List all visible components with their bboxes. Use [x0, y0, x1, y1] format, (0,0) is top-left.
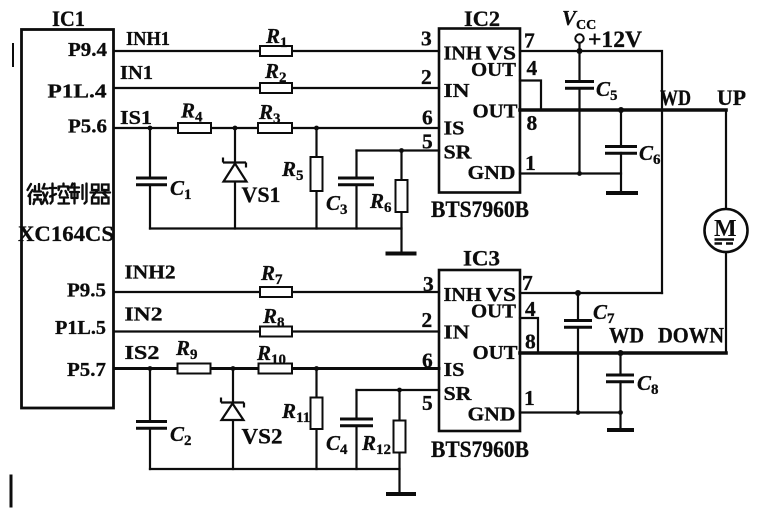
svg-text:8: 8: [527, 111, 538, 135]
svg-text:P1L.5: P1L.5: [55, 317, 106, 339]
svg-text:IN2: IN2: [125, 304, 163, 326]
svg-text:OUT: OUT: [471, 301, 517, 323]
svg-text:IS1: IS1: [120, 107, 152, 129]
svg-text:DOWN: DOWN: [658, 323, 724, 348]
svg-text:1: 1: [525, 151, 536, 175]
svg-text:BTS7960B: BTS7960B: [431, 197, 529, 222]
svg-text:OUT: OUT: [473, 101, 519, 123]
svg-text:7: 7: [522, 271, 533, 295]
svg-text:3: 3: [423, 272, 434, 296]
svg-text:4: 4: [527, 56, 538, 80]
svg-text:SR: SR: [444, 383, 473, 405]
svg-text:M: M: [714, 216, 737, 242]
svg-text:INH1: INH1: [126, 28, 170, 50]
svg-text:IS2: IS2: [125, 342, 160, 364]
svg-text:P5.7: P5.7: [67, 359, 106, 381]
svg-text:4: 4: [525, 297, 536, 321]
svg-text:XC164CS: XC164CS: [18, 221, 114, 246]
svg-text:GND: GND: [468, 162, 516, 184]
svg-text:8: 8: [525, 330, 536, 354]
svg-text:VS1: VS1: [242, 182, 281, 207]
svg-text:P9.5: P9.5: [67, 280, 106, 302]
svg-text:5: 5: [422, 391, 433, 415]
svg-text:UP: UP: [717, 85, 746, 110]
svg-text:P1L.4: P1L.4: [48, 81, 107, 103]
svg-text:P5.6: P5.6: [68, 116, 107, 138]
svg-text:IN: IN: [444, 80, 471, 102]
svg-text:IS: IS: [444, 118, 465, 140]
svg-text:IN: IN: [444, 322, 471, 344]
svg-text:SR: SR: [444, 142, 473, 164]
svg-text:BTS7960B: BTS7960B: [431, 437, 529, 462]
svg-text:IS: IS: [444, 359, 465, 381]
svg-text:IC3: IC3: [463, 246, 500, 271]
svg-text:IN1: IN1: [120, 62, 153, 84]
svg-text:GND: GND: [468, 404, 516, 426]
svg-text:P9.4: P9.4: [68, 39, 107, 61]
svg-text:6: 6: [422, 106, 433, 130]
svg-text:OUT: OUT: [473, 342, 519, 364]
svg-text:VS2: VS2: [242, 424, 283, 449]
svg-text:6: 6: [422, 349, 433, 373]
svg-text:5: 5: [422, 130, 433, 154]
svg-text:IC2: IC2: [464, 6, 500, 31]
svg-text:WD: WD: [660, 85, 691, 110]
svg-text:1: 1: [524, 386, 535, 410]
svg-text:IC1: IC1: [52, 6, 85, 31]
svg-text:INH2: INH2: [125, 262, 176, 284]
svg-text:OUT: OUT: [471, 59, 517, 81]
svg-text:2: 2: [421, 65, 432, 89]
svg-text:2: 2: [422, 308, 433, 332]
svg-text:3: 3: [421, 27, 432, 51]
svg-text:7: 7: [524, 29, 535, 53]
